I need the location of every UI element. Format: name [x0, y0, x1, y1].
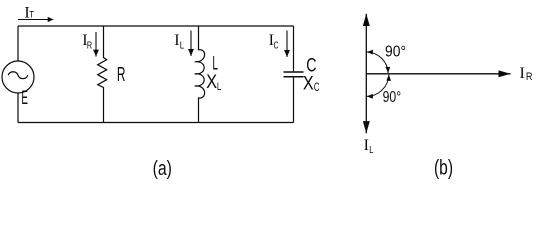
svg-text:L: L — [369, 144, 373, 156]
svg-text:T: T — [29, 9, 34, 19]
svg-text:90°: 90° — [383, 89, 402, 106]
svg-text:I: I — [174, 32, 179, 49]
svg-text:(b): (b) — [434, 156, 453, 179]
svg-text:X: X — [303, 74, 314, 95]
svg-text:I: I — [364, 137, 369, 154]
svg-text:C: C — [274, 40, 279, 52]
svg-text:(a): (a) — [153, 158, 172, 180]
svg-text:90°: 90° — [385, 44, 406, 61]
svg-text:L: L — [180, 39, 185, 51]
svg-text:C: C — [314, 80, 320, 94]
svg-text:X: X — [206, 72, 217, 93]
svg-text:I: I — [520, 65, 525, 82]
svg-text:R: R — [87, 39, 92, 51]
svg-text:L: L — [217, 81, 221, 93]
svg-text:E: E — [21, 88, 28, 109]
svg-text:R: R — [526, 71, 533, 83]
svg-text:R: R — [117, 64, 126, 86]
